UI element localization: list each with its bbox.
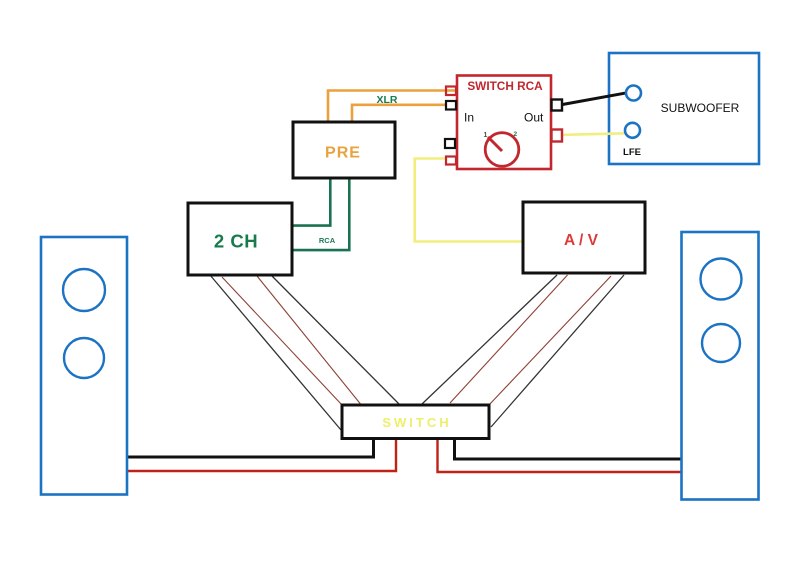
svg-text:A / V: A / V (564, 232, 599, 249)
svg-text:XLR: XLR (377, 94, 398, 106)
wire red diagonal 1 (2CH to SWITCH corner) (222, 277, 342, 405)
connector in 2 (black) (446, 101, 456, 110)
selector knob (485, 133, 519, 167)
wire red diagonal 3 (A/V to SWITCH top) (450, 275, 568, 403)
right speaker box (682, 232, 759, 500)
PRE amp box (293, 122, 395, 178)
wire black diagonal 2 (2CH to SWITCH top) (271, 275, 399, 404)
left speaker driver 1 (63, 269, 105, 311)
subwoofer box (609, 53, 759, 164)
wire black speaker right (SWITCH to right speaker) (455, 439, 683, 460)
svg-text:2 CH: 2 CH (214, 231, 258, 252)
wire green RCA 2 (PRE to 2CH) (292, 178, 349, 250)
connector out 1 (black) (552, 100, 563, 111)
svg-text:SUBWOOFER: SUBWOOFER (661, 101, 740, 115)
right speaker driver 2 (702, 324, 740, 362)
connector out 2 (red) (552, 130, 563, 142)
right speaker driver 1 (701, 259, 742, 300)
svg-text:RCA: RCA (319, 236, 336, 245)
wire green RCA 1 (PRE to 2CH) (292, 178, 330, 226)
wire yellow (SWITCH RCA in 4 to A/V) (415, 159, 523, 242)
svg-text:2: 2 (514, 131, 518, 138)
connector in 4 (red) (446, 157, 456, 165)
wire red diagonal 2 (2CH to SWITCH top) (257, 276, 361, 404)
wire orange 1 (PRE to SWITCH RCA in 1) (328, 91, 455, 123)
subwoofer input jack 1 (626, 86, 641, 101)
left speaker driver 2 (64, 338, 104, 378)
connector in 1 (red) (446, 87, 456, 96)
2CH corner mark (187, 207, 190, 210)
wire black diagonal 1 (2CH to SWITCH left edge) (210, 275, 341, 430)
wire red speaker right (SWITCH to right speaker) (438, 439, 683, 473)
connector in 3 (black) (445, 139, 455, 148)
knob pointer (488, 137, 502, 151)
wire black (SWITCH RCA out 1 to SUBWOOFER) (563, 93, 628, 105)
SWITCH box (342, 405, 489, 439)
wire black diagonal 3 (A/V to SWITCH top) (422, 275, 557, 404)
wire yellow LFE (SWITCH RCA out 2 to SUBWOOFER LFE) (563, 133, 628, 135)
wire black speaker left (SWITCH to left speaker) (128, 439, 374, 458)
2CH amp box (188, 203, 292, 275)
left speaker box (41, 237, 127, 495)
subwoofer input jack LFE (625, 123, 640, 138)
wire red speaker left (SWITCH to left speaker) (128, 439, 396, 472)
svg-text:Out: Out (524, 111, 544, 125)
wire orange 2 XLR (PRE to SWITCH RCA in 2) (352, 105, 446, 122)
svg-text:SWITCH: SWITCH (382, 415, 451, 430)
wire red diagonal 4 (A/V to SWITCH corner) (489, 276, 611, 405)
svg-text:SWITCH RCA: SWITCH RCA (467, 79, 543, 93)
wire black diagonal 4 (A/V to SWITCH right edge) (491, 275, 624, 427)
A/V receiver box (523, 202, 645, 273)
SWITCH RCA box (457, 76, 551, 170)
svg-text:1: 1 (484, 132, 488, 139)
svg-text:LFE: LFE (623, 147, 641, 158)
svg-text:PRE: PRE (325, 145, 361, 162)
svg-text:In: In (464, 111, 474, 125)
